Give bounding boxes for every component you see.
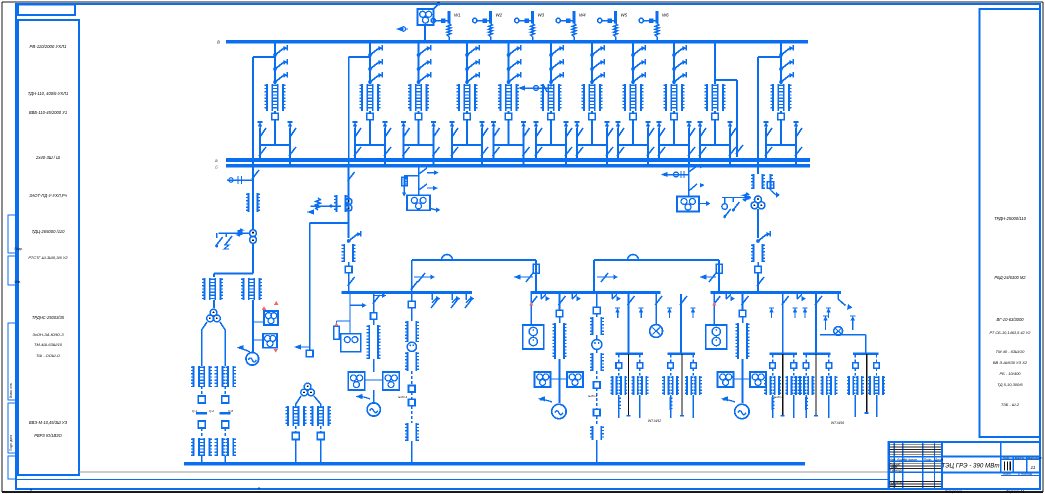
section 3 fan motor arrows: [823, 315, 828, 317]
110kV transformer bay at x=633: [632, 43, 634, 84]
svg-text:ТЗБ - Ш-2: ТЗБ - Ш-2: [1001, 402, 1020, 407]
unit 1 excitation branch: [252, 300, 254, 353]
svg-text:ТМ 40 - 63Ш/10: ТМ 40 - 63Ш/10: [996, 349, 1025, 354]
svg-text:Лит.: Лит.: [1002, 456, 1010, 460]
svg-text:а: а: [217, 40, 220, 46]
bus 6kV bottom (generator voltage bus): [184, 462, 805, 466]
black cable group F: [866, 354, 868, 413]
svg-text:W2: W2: [496, 13, 503, 18]
110kV transformer bay at x=674: [673, 43, 675, 84]
110kV transformer bay at x=781: [780, 43, 782, 84]
svg-text:Формат А1: Формат А1: [1006, 490, 1025, 494]
house generator breaker: [371, 313, 377, 319]
svg-text:б: б: [215, 165, 218, 170]
bridge 1 switch stubs: [414, 276, 431, 278]
svg-text:ТДН-110, 400/6-УХЛ1: ТДН-110, 400/6-УХЛ1: [28, 91, 68, 96]
title block column lines: [893, 442, 895, 489]
svg-text:2x40-3Ш / Ш: 2x40-3Ш / Ш: [35, 155, 60, 160]
svg-text:ТД 5,10,300/6: ТД 5,10,300/6: [997, 382, 1023, 387]
bus coupler loop at bay 715: [715, 79, 737, 81]
small feeder stubs under section 2: [540, 294, 542, 299]
title block row lines left part (black): [890, 444, 941, 446]
unit 1 auxiliary tap cluster: [218, 232, 249, 234]
line feeder W3: [531, 11, 534, 24]
svg-text:Масштаб: Масштаб: [1028, 456, 1042, 460]
svg-text:№ докум.: № докум.: [904, 457, 918, 461]
unit 1 link below windings: [213, 300, 215, 308]
horizontal separator above title row: [79, 471, 889, 473]
unit 1 link to generator: [252, 243, 254, 273]
red mark unit1 box bottom: [273, 349, 278, 353]
unit 1 feeder column x=201.6: [201, 330, 203, 366]
unit 1 generator three-winding symbol: [210, 309, 217, 316]
svg-text:Подп. дата: Подп. дата: [9, 435, 13, 451]
unit 1 instrument circles: [250, 230, 257, 237]
svg-text:РВРЗ Ю/1ВЗО: РВРЗ Ю/1ВЗО: [34, 433, 62, 438]
section 2 measuring boxes: [535, 372, 551, 387]
110kV transformer bay at x=275: [274, 43, 276, 84]
own needs transformer winding at bus: [336, 195, 338, 212]
station transformer switch: [347, 239, 351, 243]
sheet outer black border: [2, 1, 1043, 3]
VT bay 688 measuring box: [677, 197, 699, 212]
section 3 arrow: [723, 400, 735, 402]
station transformer 3 lead: [757, 262, 759, 266]
surge arrester tap left of station transformer: [311, 205, 341, 207]
motor group D under section 2: [628, 294, 630, 353]
bridge 2 switch stubs: [597, 276, 614, 278]
line feeder W6: [656, 11, 659, 24]
section 2 feeder B with breaker and tall winding: [559, 294, 561, 310]
section 3 right end switch: [837, 294, 839, 299]
reactor bridge section2-section3: [594, 259, 719, 261]
left specification panel: [18, 20, 79, 475]
title block lit/mass/scale grid: [1001, 458, 1040, 460]
bus system B (double busbar lower): [226, 164, 810, 168]
bridge 1 drop blade near bus: [411, 281, 418, 290]
6kV section bus 3: [711, 291, 841, 294]
station transformer secondary winding: [343, 244, 345, 262]
VT bay 418 blade 2: [419, 184, 427, 190]
svg-text:Подп.: Подп.: [924, 457, 932, 461]
station transformer 3 winding: [753, 244, 755, 262]
motor group E under section 2 with fan motor: [680, 294, 682, 353]
house generator top arrow stubs: [374, 295, 382, 297]
trunk 758 lead down: [757, 209, 759, 238]
bus-a measuring tap with earthing switch: [521, 87, 551, 89]
section 3 feeder B with breaker and tall winding: [742, 294, 744, 310]
svg-text:ЗАОТ-ПД-У-УХЛ,Рч: ЗАОТ-ПД-У-УХЛ,Рч: [29, 193, 67, 198]
house generator feeder on section 1: [373, 294, 375, 313]
110kV transformer bay at x=418.5: [418, 43, 420, 84]
left margin form tabs: [8, 215, 16, 253]
station transformer 3 switch: [756, 239, 760, 243]
section 1 small feeders: [431, 294, 433, 300]
trunk 758 three-winding transformer cluster: [755, 196, 762, 203]
motor group E under section 3: [815, 294, 817, 353]
unit 1 HV winding block right: [243, 278, 245, 300]
red mark near unit2: [262, 306, 266, 310]
svg-text:W7-W12: W7-W12: [648, 419, 661, 423]
unit 1 generator trunk from bay 275: [252, 167, 254, 231]
svg-text:ТШ - ООШ-О: ТШ - ООШ-О: [36, 353, 60, 358]
svg-text:Iв-Ю-4: Iв-Ю-4: [398, 395, 407, 399]
svg-text:ВГ-10-63/3000: ВГ-10-63/3000: [996, 317, 1024, 322]
house generator transformer winding tall: [373, 319, 375, 325]
house generator arrow: [359, 397, 370, 399]
svg-text:Утв.: Утв.: [890, 484, 897, 488]
voltage transformer bay on bus B at x=418.8: [418, 167, 420, 196]
section 3 fan motor line: [820, 334, 866, 336]
svg-text:РБД-24/6300 М2: РБД-24/6300 М2: [994, 275, 1026, 280]
VT bay 688 switch right: [689, 166, 697, 172]
unit 1 feeder column x=225.2: [224, 330, 226, 366]
line feeder W1: [448, 11, 451, 24]
bus system A (double busbar upper): [226, 158, 810, 162]
title block (GOST form 1): [889, 442, 1040, 489]
svg-text:РТ СБ-10,1463,5 42 У2: РТ СБ-10,1463,5 42 У2: [990, 330, 1032, 335]
section 2 transformer feeder A: [530, 294, 532, 305]
unit 1 current transformer winding: [248, 193, 250, 212]
house generator machine: [367, 403, 380, 416]
svg-text:ТЭЦ ГРЭ - 390 МВт: ТЭЦ ГРЭ - 390 МВт: [942, 463, 1000, 470]
unit 2 feeder column x=320.6: [320, 404, 322, 406]
unit 2 breaker: [306, 350, 313, 357]
svg-text:Изм. Лист: Изм. Лист: [890, 457, 906, 461]
red mark unit1 box top: [274, 301, 279, 305]
section 3 measuring boxes: [718, 372, 734, 387]
svg-text:РБ - 10/400: РБ - 10/400: [999, 371, 1021, 376]
svg-text:Q-2: Q-2: [209, 409, 214, 413]
110kV transformer bay at x=551: [550, 43, 552, 84]
svg-text:Взам. инв.: Взам. инв.: [9, 382, 13, 398]
unit 2 feeder column x=295.9: [295, 404, 297, 406]
reserve trunk to unit 2 generator: [310, 222, 349, 224]
VT bay 688 capacitor tap: [664, 174, 689, 176]
svg-text:ТРДН-25000/110: ТРДН-25000/110: [994, 216, 1027, 221]
station transformer 3 breaker: [755, 266, 762, 273]
svg-text:W1: W1: [454, 13, 461, 18]
reactor bridge section1-section2: [412, 259, 536, 261]
trunk 758 left tap with arresters: [722, 197, 751, 199]
svg-text:W6: W6: [662, 13, 669, 18]
svg-text:Дата: Дата: [934, 457, 943, 461]
station transformer trunk from bay 370 to 6kV section 1: [348, 167, 350, 239]
110kV transformer bay at x=592: [591, 43, 593, 84]
unit 1 HV winding block left: [204, 278, 206, 300]
svg-text:W7-W16: W7-W16: [831, 421, 844, 425]
small feeder stubs under section 3: [725, 294, 727, 299]
series reactor column under section 1 x=411.8: [411, 294, 413, 301]
110kV transformer bay at x=508.5: [508, 43, 510, 84]
svg-text:W3: W3: [538, 13, 545, 18]
svg-text:ЗхОН-ЗА-Ю/Ю-3: ЗхОН-ЗА-Ю/Ю-3: [32, 332, 64, 337]
svg-text:Масса: Масса: [1015, 456, 1024, 460]
top-left reference box: [18, 5, 75, 16]
6kV section bus 1: [342, 291, 472, 294]
unit 1 excitation transformer boxes: [264, 311, 278, 325]
voltage transformer group on bus a: [424, 25, 426, 41]
section 3 transformer feeder A: [713, 294, 715, 305]
svg-text:ТРДНС-25003/35: ТРДНС-25003/35: [32, 315, 65, 320]
voltage transformer bay on bus B at x=688.7: [688, 167, 690, 198]
svg-text:11: 11: [1031, 465, 1036, 471]
VT bay 688 second blade: [689, 184, 697, 191]
red mark house generator: [334, 322, 338, 326]
unit 1 LV split: [202, 322, 207, 334]
svg-text:Q-8: Q-8: [228, 409, 233, 413]
svg-text:W5: W5: [621, 13, 628, 18]
svg-text:Копировал: Копировал: [945, 490, 962, 494]
unit 2 LV split: [296, 396, 301, 408]
bus 110kV section a (top bus): [226, 40, 808, 44]
motor group F under section 3 far right: [865, 335, 867, 354]
line feeder W5: [614, 11, 617, 24]
110kV transformer bay at x=467: [466, 43, 468, 84]
svg-text:РТСТГ-Ш-3Ш0,3/6 У2: РТСТГ-Ш-3Ш0,3/6 У2: [28, 255, 68, 260]
trunk 758 side column with breaker: [770, 174, 772, 190]
svg-text:Iв-Ю-4: Iв-Ю-4: [774, 395, 783, 399]
VT bay 418 left earthing column: [404, 175, 419, 177]
station transformer lead to section 1: [348, 262, 350, 266]
unit 2 arrow tap: [297, 346, 310, 348]
section 2 sync generator: [552, 404, 566, 418]
right specification panel: [980, 9, 1041, 437]
title block main horizontal dividers: [889, 456, 942, 458]
unit 1 exciter machine: [246, 353, 259, 366]
line feeder W4: [573, 11, 576, 24]
svg-text:Т.контр.: Т.контр.: [890, 469, 903, 473]
svg-text:а: а: [215, 158, 218, 163]
motor group D under section 3: [782, 294, 784, 353]
110kV transformer bay at x=370: [369, 43, 371, 84]
station transformer breaker: [345, 266, 352, 273]
svg-text:Лист: Лист: [1002, 472, 1011, 476]
svg-text:Iв-Ю-4: Iв-Ю-4: [588, 394, 597, 398]
line feeder W2: [489, 11, 492, 24]
svg-text:Листов: Листов: [1020, 472, 1032, 476]
section 3 sync generator: [735, 404, 749, 418]
svg-text:ТМ-4Ш-63Ш/10: ТМ-4Ш-63Ш/10: [34, 342, 63, 347]
red mark section3 feeder: [712, 302, 716, 306]
VT bay 418 measuring cluster box: [407, 195, 430, 210]
svg-text:Q-1: Q-1: [192, 409, 197, 413]
unit 2 generator three-winding symbol: [304, 383, 311, 390]
svg-text:ТДЦ-265000 /110: ТДЦ-265000 /110: [32, 229, 66, 234]
red mark section2 feeder: [529, 302, 533, 306]
110kV transformer bay at x=715: [714, 43, 716, 84]
svg-text:Инв.: Инв.: [15, 280, 22, 284]
VT bay 418 blade 1: [419, 168, 427, 174]
series reactor column under section 2 x=596.8: [596, 294, 598, 307]
svg-text:ВВ Э-Ш/630 УЗ Х2: ВВ Э-Ш/630 УЗ Х2: [993, 360, 1028, 365]
house generator measuring boxes: [373, 359, 375, 372]
svg-text:Подп.: Подп.: [15, 247, 24, 251]
svg-text:ВВЭ-М-10,45/3Ш УЗ: ВВЭ-М-10,45/3Ш УЗ: [29, 420, 68, 425]
svg-text:W4: W4: [579, 13, 586, 18]
unit 1 exciter arrow: [239, 348, 250, 352]
section 2 arrow: [540, 400, 552, 402]
unit 1 surge tap: [227, 179, 253, 181]
house generator left fuse and box: [349, 305, 351, 326]
svg-text:ВВБ-110-45/2000 У1: ВВБ-110-45/2000 У1: [29, 110, 67, 115]
6kV section bus 2: [530, 291, 660, 294]
svg-text:РВ-110/2000 УХЛ1: РВ-110/2000 УХЛ1: [30, 44, 68, 49]
unit trunk x=758 winding at bus: [757, 167, 759, 175]
